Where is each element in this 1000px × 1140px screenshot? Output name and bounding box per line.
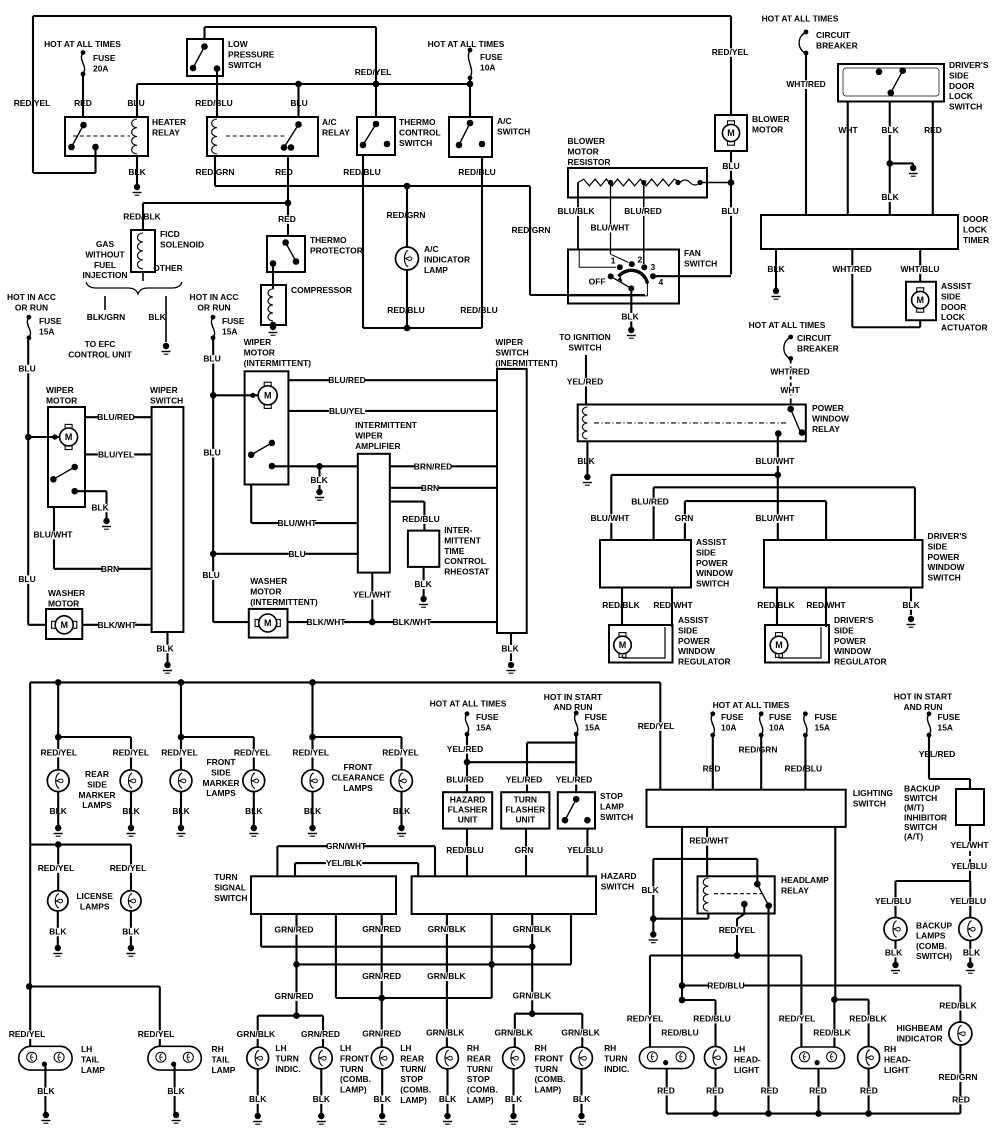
svg-text:BLK: BLK [963,948,981,958]
svg-text:HEAD-: HEAD- [734,1054,761,1064]
svg-text:HOT AT ALL TIMES: HOT AT ALL TIMES [44,39,121,49]
svg-text:BLU/WHT: BLU/WHT [756,456,796,466]
svg-text:RED: RED [809,1086,827,1096]
svg-text:CIRCUIT: CIRCUIT [797,333,832,343]
svg-text:YEL/WHT: YEL/WHT [353,590,392,600]
svg-text:ASSIST: ASSIST [941,281,972,291]
svg-text:RED: RED [761,1086,779,1096]
svg-text:GRN/BLK: GRN/BLK [513,924,552,934]
svg-text:SWITCH: SWITCH [601,881,634,891]
svg-text:BLK: BLK [310,475,328,485]
svg-text:RED/YEL: RED/YEL [719,925,756,935]
svg-text:SIDE: SIDE [949,70,969,80]
svg-text:RED/YEL: RED/YEL [627,1014,664,1024]
svg-text:YEL/RED: YEL/RED [567,377,604,387]
svg-text:DOOR: DOOR [963,214,988,224]
svg-text:ASSIST: ASSIST [696,537,727,547]
svg-text:BLU: BLU [203,354,220,364]
svg-text:GRN/WHT: GRN/WHT [326,841,367,851]
svg-text:BLU: BLU [290,98,307,108]
svg-text:BLU/WHT: BLU/WHT [591,513,631,523]
svg-text:ASSIST: ASSIST [678,615,709,625]
svg-text:LIGHTING: LIGHTING [853,788,894,798]
svg-text:M: M [264,391,272,401]
svg-text:HOT AT ALL TIMES: HOT AT ALL TIMES [713,700,790,710]
svg-text:REAR: REAR [400,1053,424,1063]
svg-text:GRN: GRN [675,513,694,523]
svg-text:SWITCH: SWITCH [904,793,937,803]
svg-text:SWITCH): SWITCH) [916,951,952,961]
svg-text:BLOWER: BLOWER [752,114,790,124]
svg-text:PRESSURE: PRESSURE [228,49,275,59]
svg-text:LAMPS: LAMPS [82,800,112,810]
svg-text:MOTOR: MOTOR [752,124,783,134]
svg-text:RED/BLK: RED/BLK [602,600,640,610]
svg-text:FUSE: FUSE [480,52,503,62]
svg-text:CONTROL: CONTROL [444,556,486,566]
svg-text:GRN/BLK: GRN/BLK [561,1028,600,1038]
svg-text:BLU/WHT: BLU/WHT [591,223,631,233]
svg-text:MOTOR: MOTOR [48,598,79,608]
svg-text:(INTERMITTENT): (INTERMITTENT) [244,358,312,368]
svg-text:10A: 10A [480,62,495,72]
svg-text:GRN/BLK: GRN/BLK [494,1028,533,1038]
svg-text:RED/YEL: RED/YEL [779,1014,816,1024]
svg-text:HOT AT ALL TIMES: HOT AT ALL TIMES [762,14,839,24]
svg-text:BLK: BLK [148,312,166,322]
svg-text:WIPER: WIPER [46,385,74,395]
svg-text:BLK/WHT: BLK/WHT [393,617,433,627]
svg-text:BLK/GRN: BLK/GRN [87,312,125,322]
svg-text:RED/GRN: RED/GRN [512,225,551,235]
svg-text:GRN/BLK: GRN/BLK [427,971,466,981]
svg-text:OR RUN: OR RUN [15,302,48,312]
svg-text:LAMP): LAMP) [467,1095,494,1105]
svg-text:RED/YEL: RED/YEL [292,748,329,758]
svg-text:CLEARANCE: CLEARANCE [332,772,385,782]
svg-text:BLK: BLK [37,1086,55,1096]
svg-text:COMPRESSOR: COMPRESSOR [291,285,352,295]
svg-text:INDIC.: INDIC. [604,1064,629,1074]
svg-text:BLK: BLK [621,312,639,322]
svg-text:MOTOR: MOTOR [244,347,275,357]
svg-text:POWER: POWER [812,403,844,413]
svg-text:FUSE: FUSE [938,712,961,722]
svg-text:SIGNAL: SIGNAL [214,882,246,892]
svg-text:BLU: BLU [288,549,305,559]
svg-text:BLU/WHT: BLU/WHT [756,513,796,523]
svg-text:BLK: BLK [122,926,140,936]
svg-text:RED/YEL: RED/YEL [41,748,78,758]
svg-text:INHIBITOR: INHIBITOR [904,812,947,822]
svg-text:LH: LH [734,1044,745,1054]
svg-text:BLK: BLK [49,926,67,936]
svg-text:TURN/: TURN/ [467,1064,493,1074]
svg-text:RED/BLU: RED/BLU [446,845,484,855]
svg-text:WIPER: WIPER [495,337,523,347]
svg-text:YEL/BLU: YEL/BLU [567,845,603,855]
svg-text:4: 4 [659,277,664,287]
svg-text:TURN: TURN [214,872,237,882]
svg-text:CONTROL UNIT: CONTROL UNIT [68,349,132,359]
svg-text:RED: RED [924,125,942,135]
svg-text:GRN/RED: GRN/RED [275,925,314,935]
svg-text:BLU/WHT: BLU/WHT [34,530,74,540]
svg-text:SWITCH: SWITCH [568,343,601,353]
svg-text:A/C: A/C [322,117,337,127]
svg-text:HEATER: HEATER [152,117,186,127]
svg-text:WIPER: WIPER [355,430,383,440]
svg-text:AND RUN: AND RUN [904,702,943,712]
svg-text:BRN: BRN [421,483,439,493]
svg-text:FUSE: FUSE [769,712,792,722]
svg-text:RED: RED [706,1086,724,1096]
svg-text:(INERMITTENT): (INERMITTENT) [495,358,558,368]
svg-text:GRN/RED: GRN/RED [301,1029,340,1039]
svg-text:STOP: STOP [467,1074,490,1084]
svg-text:BLU/RED: BLU/RED [631,496,669,506]
svg-text:SWITCH: SWITCH [228,60,261,70]
svg-text:15A: 15A [815,722,830,732]
svg-text:BLU: BLU [202,570,219,580]
svg-text:OFF: OFF [589,277,606,287]
svg-text:M: M [619,640,627,650]
svg-text:LAMPS: LAMPS [916,931,946,941]
svg-text:3: 3 [651,262,656,272]
svg-text:WHT/RED: WHT/RED [770,366,809,376]
svg-text:SWITCH: SWITCH [853,798,886,808]
svg-text:RED: RED [952,1095,970,1105]
svg-text:M: M [60,620,68,630]
svg-text:BRN/RED: BRN/RED [414,461,452,471]
svg-text:SWITCH: SWITCH [497,126,530,136]
svg-text:CIRCUIT: CIRCUIT [816,30,851,40]
svg-text:FUSE: FUSE [585,712,608,722]
svg-text:BLOWER: BLOWER [568,136,606,146]
svg-text:YEL/RED: YEL/RED [447,744,484,754]
svg-text:POWER: POWER [678,636,710,646]
svg-text:INTERMITTENT: INTERMITTENT [355,420,418,430]
svg-text:15A: 15A [222,326,237,336]
svg-text:FLASHER: FLASHER [505,805,545,815]
svg-text:LAMP): LAMP) [400,1095,427,1105]
svg-text:RH: RH [467,1043,479,1053]
svg-text:TAIL: TAIL [212,1054,230,1064]
svg-text:MOTOR: MOTOR [46,395,77,405]
svg-text:SWITCH: SWITCH [600,812,633,822]
svg-text:WIPER: WIPER [244,337,272,347]
svg-text:LH: LH [340,1043,351,1053]
svg-text:TURN/: TURN/ [400,1064,426,1074]
svg-text:WINDOW: WINDOW [696,568,733,578]
svg-text:RED/YEL: RED/YEL [38,863,75,873]
svg-text:WHT/RED: WHT/RED [832,264,871,274]
svg-text:LOCK: LOCK [941,312,966,322]
svg-text:LAMP: LAMP [212,1065,236,1075]
svg-text:REGULATOR: REGULATOR [834,657,887,667]
svg-text:FICD: FICD [160,229,180,239]
svg-text:LOCK: LOCK [949,91,974,101]
svg-text:RED/YEL: RED/YEL [110,863,147,873]
svg-text:DRIVER'S: DRIVER'S [834,615,874,625]
svg-text:FRONT: FRONT [206,757,236,767]
svg-text:UNIT: UNIT [515,815,536,825]
svg-text:FRONT: FRONT [535,1053,565,1063]
svg-text:RED/YEL: RED/YEL [638,721,675,731]
svg-text:SWITCH: SWITCH [495,347,528,357]
svg-text:GAS: GAS [96,239,115,249]
svg-text:20A: 20A [93,63,108,73]
svg-text:LICENSE: LICENSE [76,891,113,901]
svg-text:WHT: WHT [780,385,800,395]
svg-text:WHT/BLU: WHT/BLU [901,264,940,274]
svg-text:RED/YEL: RED/YEL [113,748,150,758]
svg-text:GRN/RED: GRN/RED [362,924,401,934]
svg-text:RED/BLU: RED/BLU [387,305,425,315]
svg-text:LAMP: LAMP [600,801,624,811]
svg-text:REGULATOR: REGULATOR [678,657,731,667]
svg-text:M: M [264,618,272,628]
svg-text:WINDOW: WINDOW [678,646,715,656]
svg-text:BLK: BLK [91,502,109,512]
svg-text:OTHER: OTHER [153,263,183,273]
svg-text:FRONT: FRONT [340,1053,370,1063]
svg-text:TURN: TURN [275,1053,298,1063]
svg-text:RED/BLU: RED/BLU [458,167,496,177]
svg-text:FUSE: FUSE [815,712,838,722]
svg-text:FUSE: FUSE [721,712,744,722]
svg-text:HOT IN START: HOT IN START [544,692,603,702]
svg-text:SWITCH: SWITCH [684,258,717,268]
svg-text:BRN: BRN [101,564,119,574]
svg-text:WINDOW: WINDOW [928,562,965,572]
svg-text:SIDE: SIDE [696,547,716,557]
svg-text:BLK: BLK [881,192,899,202]
svg-text:GRN/BLK: GRN/BLK [428,924,467,934]
svg-text:OR RUN: OR RUN [197,302,230,312]
svg-text:GRN/BLK: GRN/BLK [237,1029,276,1039]
svg-text:GRN/RED: GRN/RED [362,971,401,981]
svg-text:TAIL: TAIL [81,1054,99,1064]
svg-text:SIDE: SIDE [211,767,231,777]
svg-text:RED/BLU: RED/BLU [402,514,440,524]
svg-text:BLK: BLK [304,806,322,816]
svg-text:BREAKER: BREAKER [797,343,839,353]
svg-text:LH: LH [81,1044,92,1054]
svg-text:BLK: BLK [156,643,174,653]
svg-text:BLU: BLU [127,98,144,108]
svg-text:BLK: BLK [573,1094,591,1104]
svg-text:(COMB.: (COMB. [340,1074,371,1084]
svg-text:WHT/RED: WHT/RED [786,79,825,89]
svg-text:RED/YEL: RED/YEL [234,748,271,758]
svg-text:15A: 15A [476,722,491,732]
svg-text:M: M [727,128,735,138]
svg-text:BLK: BLK [414,579,432,589]
svg-text:BACKUP: BACKUP [904,784,940,794]
svg-text:BLU: BLU [203,448,220,458]
svg-text:RED/GRN: RED/GRN [939,1072,978,1082]
svg-text:SIDE: SIDE [928,541,948,551]
svg-text:M: M [916,295,924,305]
svg-text:RH: RH [212,1044,224,1054]
svg-text:(COMB.: (COMB. [400,1085,431,1095]
svg-text:YEL/WHT: YEL/WHT [951,840,990,850]
svg-text:(A/T): (A/T) [904,832,923,842]
svg-text:RED/YEL: RED/YEL [9,1029,46,1039]
svg-text:RED/BLK: RED/BLK [849,1014,887,1024]
svg-text:(COMB.: (COMB. [916,941,947,951]
svg-text:BLK: BLK [501,644,519,654]
svg-text:SWITCH: SWITCH [904,822,937,832]
svg-text:TURN: TURN [514,795,537,805]
svg-text:MARKER: MARKER [202,778,239,788]
svg-text:RED/YEL: RED/YEL [138,1029,175,1039]
svg-text:INDIC.: INDIC. [275,1064,300,1074]
svg-text:SWITCH: SWITCH [214,893,247,903]
svg-text:POWER: POWER [928,552,960,562]
svg-text:THERMO: THERMO [399,117,436,127]
svg-text:HEAD-: HEAD- [884,1054,911,1064]
svg-text:LH: LH [275,1043,286,1053]
svg-text:INDICATOR: INDICATOR [424,254,470,264]
svg-text:BLK: BLK [374,1094,392,1104]
svg-text:FUSE: FUSE [93,53,116,63]
svg-text:HOT IN ACC: HOT IN ACC [7,292,56,302]
svg-text:SIDE: SIDE [941,291,961,301]
svg-text:MOTOR: MOTOR [250,586,281,596]
svg-text:RED/BLU: RED/BLU [785,763,823,773]
svg-text:RED/YEL: RED/YEL [382,748,419,758]
svg-text:SWITCH: SWITCH [399,138,432,148]
svg-text:HAZARD: HAZARD [450,795,486,805]
svg-text:TO IGNITION: TO IGNITION [559,332,610,342]
svg-text:FAN: FAN [684,248,701,258]
svg-text:RED/BLU: RED/BLU [460,305,498,315]
svg-text:LIGHT: LIGHT [734,1065,760,1075]
svg-text:A/C: A/C [497,116,512,126]
svg-text:HIGHBEAM: HIGHBEAM [897,1023,943,1033]
svg-text:AND RUN: AND RUN [554,702,593,712]
svg-text:BLK: BLK [167,1086,185,1096]
svg-text:HAZARD: HAZARD [601,871,637,881]
svg-text:CONTROL: CONTROL [399,127,441,137]
svg-text:SOLENOID: SOLENOID [160,239,204,249]
svg-text:RELAY: RELAY [152,127,180,137]
svg-text:UNIT: UNIT [458,815,479,825]
svg-text:LAMPS: LAMPS [80,901,110,911]
svg-text:MOTOR: MOTOR [568,146,599,156]
svg-text:GRN/BLK: GRN/BLK [513,990,552,1000]
svg-text:BLU/WHT: BLU/WHT [278,518,318,528]
svg-text:BLK/WHT: BLK/WHT [307,617,347,627]
svg-text:FRONT: FRONT [343,762,373,772]
svg-text:WIPER: WIPER [150,385,178,395]
svg-text:BLK: BLK [577,456,595,466]
svg-text:FUSE: FUSE [39,316,62,326]
svg-text:SWITCH: SWITCH [928,573,961,583]
svg-text:RED/BLU: RED/BLU [661,1028,699,1038]
svg-text:RH: RH [884,1044,896,1054]
svg-text:15A: 15A [585,722,600,732]
svg-text:GRN/RED: GRN/RED [275,991,314,1001]
svg-text:FUSE: FUSE [222,316,245,326]
svg-text:AMPLIFIER: AMPLIFIER [355,441,400,451]
svg-text:BLK: BLK [505,1094,523,1104]
svg-text:HOT AT ALL TIMES: HOT AT ALL TIMES [430,698,507,708]
svg-text:1: 1 [611,256,616,266]
svg-text:WASHER: WASHER [250,576,287,586]
svg-text:MITTENT: MITTENT [444,535,481,545]
svg-text:RED/YEL: RED/YEL [14,98,51,108]
svg-text:REAR: REAR [85,769,109,779]
svg-text:RED/YEL: RED/YEL [161,748,198,758]
svg-text:RED/BLK: RED/BLK [123,212,161,222]
svg-text:RED/WHT: RED/WHT [653,600,693,610]
svg-text:LAMPS: LAMPS [206,788,236,798]
svg-text:RED/BLU: RED/BLU [707,981,745,991]
svg-text:INTER-: INTER- [444,525,472,535]
svg-text:INDICATOR: INDICATOR [897,1033,943,1043]
svg-text:SWITCH: SWITCH [150,395,183,405]
svg-text:BLU: BLU [18,363,35,373]
svg-text:TURN: TURN [535,1064,558,1074]
svg-text:SIDE: SIDE [678,625,698,635]
svg-text:YEL/BLK: YEL/BLK [326,858,363,868]
svg-text:BLK: BLK [881,125,899,135]
svg-text:LAMP: LAMP [424,265,448,275]
svg-text:RED: RED [275,167,293,177]
svg-text:RESISTOR: RESISTOR [568,157,611,167]
svg-text:LAMP): LAMP) [535,1085,562,1095]
svg-text:15A: 15A [39,326,54,336]
svg-text:DOOR: DOOR [941,302,966,312]
svg-text:RED/BLK: RED/BLK [757,600,795,610]
svg-text:GRN/RED: GRN/RED [362,1028,401,1038]
svg-text:SWITCH: SWITCH [949,102,982,112]
svg-text:POWER: POWER [696,558,728,568]
svg-text:BLK: BLK [767,264,785,274]
svg-text:WINDOW: WINDOW [812,413,849,423]
svg-text:STOP: STOP [600,791,623,801]
svg-text:YEL/BLU: YEL/BLU [875,896,911,906]
svg-text:FLASHER: FLASHER [448,805,488,815]
svg-text:STOP: STOP [400,1074,423,1084]
svg-text:RED/BLU: RED/BLU [693,1014,731,1024]
svg-text:TIME: TIME [444,546,465,556]
svg-text:BLK: BLK [641,885,659,895]
svg-text:A/C: A/C [424,244,439,254]
svg-text:BLU/RED: BLU/RED [624,206,662,216]
svg-text:DOOR: DOOR [949,81,974,91]
svg-text:RED/BLK: RED/BLK [939,1001,977,1011]
svg-text:10A: 10A [721,722,736,732]
svg-text:RED/YEL: RED/YEL [712,47,749,57]
svg-text:RED/BLK: RED/BLK [813,1028,851,1038]
svg-text:LOW: LOW [228,39,248,49]
svg-text:(COMB.: (COMB. [467,1085,498,1095]
svg-text:WITHOUT: WITHOUT [85,249,125,259]
svg-text:LIGHT: LIGHT [884,1065,910,1075]
svg-text:15A: 15A [938,722,953,732]
svg-text:M: M [775,640,783,650]
svg-text:RED: RED [278,214,296,224]
svg-text:BLU/YEL: BLU/YEL [98,449,134,459]
svg-text:TURN: TURN [340,1064,363,1074]
svg-text:BLU: BLU [721,206,738,216]
svg-text:(COMB.: (COMB. [535,1074,566,1084]
svg-text:FUEL: FUEL [94,260,116,270]
